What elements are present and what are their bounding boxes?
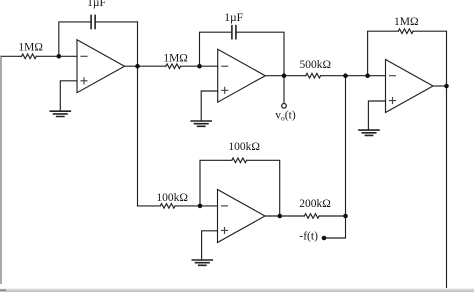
resistor R 1MΩ middle — [166, 64, 181, 69]
svg-text:1MΩ: 1MΩ — [18, 42, 43, 54]
wire U3 output node down the right side to bottom — [446, 86, 448, 292]
ground G4 under U4 — [192, 260, 212, 265]
wire node H up to R5 feedback row — [200, 160, 232, 206]
wire R4 to op-amp U4 minus input — [175, 205, 217, 207]
resistor R 1MΩ input (left) — [22, 54, 37, 59]
ground G1 under U1 — [50, 111, 70, 116]
svg-text:100kΩ: 100kΩ — [156, 192, 188, 204]
terminal vo(t) open circle — [282, 104, 287, 109]
wire R5 to right corner down to U4 output — [247, 160, 280, 216]
op-amp U1 minus sign — [81, 55, 87, 57]
bottom left dark corner mark — [0, 289, 6, 291]
svg-text:-f(t): -f(t) — [299, 231, 318, 243]
svg-text:100kΩ: 100kΩ — [228, 141, 260, 153]
wire node A up to capacitor C1 (U1 feedback left) — [59, 22, 91, 56]
node G dot (U3 output) — [444, 84, 449, 89]
op-amp U1 triangle — [77, 40, 125, 93]
wire node C up to capacitor C2 (U2 feedback left) — [200, 32, 232, 66]
wire U1 output to resistor R2 — [125, 65, 166, 67]
svg-text:500kΩ: 500kΩ — [300, 59, 332, 71]
node I dot (U4 output) — [278, 214, 283, 219]
bottom grey band — [0, 288, 474, 292]
wire U2 plus input to ground — [201, 91, 218, 121]
op-amp U4 minus sign — [222, 205, 228, 207]
capacitor C2 1µF plates — [232, 26, 236, 39]
node J dot (200k junction) — [343, 214, 348, 219]
node E dot (summing junction left) — [343, 73, 348, 78]
op-amp U3 triangle — [386, 60, 434, 113]
node F dot (feedback tap) — [365, 73, 370, 78]
resistor R7 1MΩ feedback of U3 — [398, 29, 413, 34]
wire summing vertical from node E down to -f(t) row — [324, 76, 346, 238]
wire down-left vertical to bottom op-amp row — [138, 205, 161, 207]
svg-text:1MΩ: 1MΩ — [163, 53, 188, 65]
node H dot (U4 input) — [198, 204, 203, 209]
op-amp U2 plus sign — [222, 87, 228, 93]
wire input line to R1 — [1, 55, 22, 57]
wire output terminal vo(t) drop — [283, 76, 285, 104]
wire U1 plus input to ground — [60, 81, 77, 111]
wire U3 output to node G — [433, 85, 447, 87]
node C dot (U2 input) — [197, 64, 202, 69]
op-amp U1 plus sign — [81, 78, 87, 84]
resistor R5 100kΩ feedback of U4 — [232, 158, 247, 163]
op-amp U3 minus sign — [390, 75, 396, 77]
op-amp U4 plus sign — [222, 227, 228, 233]
wire vertical from C1 corner down through U1 output node to bottom row — [137, 22, 139, 206]
svg-text:1µF: 1µF — [87, 0, 106, 9]
wire R1 to op-amp U1 minus input — [36, 55, 77, 57]
node D dot (U2 output) — [282, 73, 287, 78]
svg-text:1µF: 1µF — [224, 12, 243, 24]
svg-text:vo(t): vo(t) — [275, 110, 296, 123]
wire R2 to op-amp U2 minus input — [181, 65, 218, 67]
wire R7 to right feedback corner down to U3 output — [413, 31, 446, 86]
wire U2 output to resistor R3 — [265, 75, 306, 77]
node A dot (U1 input) — [57, 54, 62, 59]
wire R3 to op-amp U3 minus input — [321, 75, 386, 77]
wire C2 right plate to U2 output node — [236, 32, 284, 75]
wire U4 plus input to ground — [202, 231, 218, 260]
node K dot (-f(t) terminal) — [322, 236, 327, 241]
wire C1 right plate to feedback corner — [95, 21, 137, 23]
wire node F up to R7 feedback row — [368, 31, 399, 75]
wire U3 plus input to ground — [368, 101, 385, 130]
wire big loop left vertical — [0, 56, 2, 283]
op-amp U4 triangle — [218, 190, 266, 243]
op-amp U2 triangle — [218, 49, 266, 102]
svg-text:200kΩ: 200kΩ — [299, 198, 331, 210]
op-amp U2 minus sign — [222, 65, 228, 67]
wire R6 to summing vertical — [319, 215, 345, 217]
resistor R3 500kΩ — [306, 73, 321, 78]
resistor R4 100kΩ input of U4 — [160, 204, 175, 209]
node B dot (U1 output) — [135, 64, 140, 69]
wire U4 output to resistor R6 — [265, 215, 304, 217]
resistor R6 200kΩ — [304, 214, 319, 219]
op-amp U3 plus sign — [390, 98, 396, 104]
ground G3 under U3 — [359, 130, 379, 135]
ground G2 under U2 — [191, 121, 211, 126]
svg-text:1MΩ: 1MΩ — [394, 16, 419, 28]
capacitor C1 1µF plates — [91, 15, 95, 28]
